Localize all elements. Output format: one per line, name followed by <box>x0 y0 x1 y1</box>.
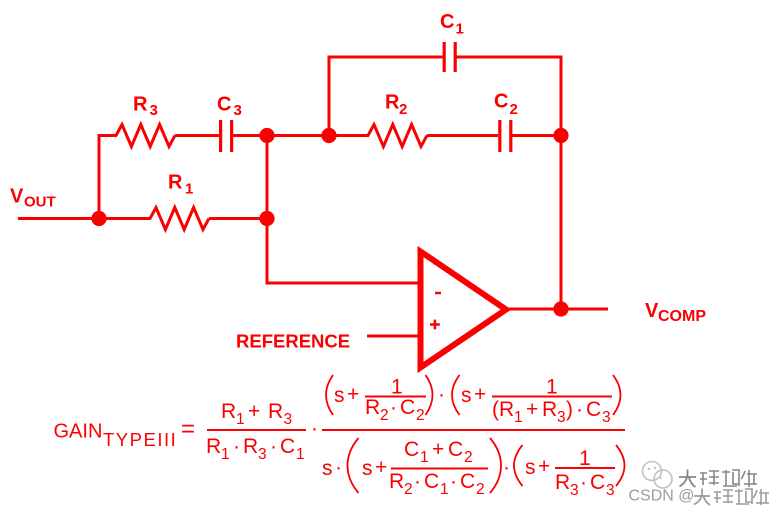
wire: inverting input horizontal to op-amp <box>266 282 422 285</box>
wire: REFERENCE lead to non-inverting input <box>367 335 421 338</box>
svg-text:1: 1 <box>221 446 230 463</box>
svg-text:CSDN @: CSDN @ <box>629 488 695 505</box>
resistor R2 <box>368 125 427 147</box>
label C3 <box>217 94 242 120</box>
svg-text:1: 1 <box>440 481 449 498</box>
wire: C1 top rail left <box>328 56 444 59</box>
svg-text:3: 3 <box>284 411 293 428</box>
label VOUT <box>10 186 56 211</box>
svg-text:(R: (R <box>492 398 514 421</box>
svg-text:2: 2 <box>416 407 425 424</box>
svg-text:R: R <box>365 396 380 419</box>
svg-text:3: 3 <box>602 409 611 426</box>
svg-text:=: = <box>181 416 195 443</box>
resistor R3 <box>116 125 175 147</box>
value fraction (R1+R3)/(R1 R3 C1) <box>206 400 318 463</box>
svg-text:1: 1 <box>296 446 305 463</box>
label R2 <box>385 92 407 119</box>
svg-text:3: 3 <box>234 102 242 119</box>
svg-text:TYPEIII: TYPEIII <box>103 429 177 450</box>
svg-text:·: · <box>311 417 318 440</box>
node A junction VOUT/R1/R3 <box>91 211 106 226</box>
wire: R2 to C2 <box>427 134 498 137</box>
node C junction C3/R2 row/inverting branch <box>259 128 274 143</box>
label REFERENCE <box>236 331 350 352</box>
svg-text:s: s <box>334 384 345 407</box>
svg-text:+: + <box>526 398 538 421</box>
op-amp non-inverting pin mark + <box>430 320 440 330</box>
svg-text:+: + <box>248 400 260 423</box>
svg-text:GAIN: GAIN <box>54 421 103 443</box>
wire: C3 to node C <box>233 134 267 137</box>
op-amp U1 triangle <box>421 252 507 368</box>
svg-text:COMP: COMP <box>658 308 706 325</box>
svg-text:): ) <box>566 398 573 421</box>
svg-text:R: R <box>389 470 404 493</box>
svg-text:+: + <box>538 455 550 478</box>
svg-text:C: C <box>440 11 454 33</box>
svg-text:·: · <box>414 470 421 493</box>
svg-text:1: 1 <box>236 411 245 428</box>
svg-text:·: · <box>233 435 240 458</box>
svg-text:s: s <box>362 457 373 480</box>
capacitor C1 <box>444 42 455 72</box>
capacitor C3 <box>221 120 232 152</box>
node F output junction <box>553 301 568 316</box>
svg-text:2: 2 <box>399 101 407 118</box>
svg-text:C: C <box>400 396 415 419</box>
svg-text:3: 3 <box>150 102 158 119</box>
svg-text:C: C <box>460 470 475 493</box>
svg-text:·: · <box>335 456 342 479</box>
label VCOMP <box>645 300 706 325</box>
svg-text:2: 2 <box>464 449 473 466</box>
svg-text:R: R <box>221 400 236 423</box>
svg-text:C: C <box>448 438 463 461</box>
wire: C1 top rail right <box>457 56 563 59</box>
svg-text:R: R <box>243 435 258 458</box>
resistor R1 <box>150 208 209 230</box>
svg-text:R: R <box>555 471 570 494</box>
node D junction R2/C1 branch <box>321 128 336 143</box>
wire: node D to R2 <box>329 134 369 137</box>
svg-text:R: R <box>542 398 557 421</box>
wire: R3 to C3 <box>175 134 219 137</box>
svg-text:·: · <box>270 435 277 458</box>
svg-text:R: R <box>385 92 400 114</box>
svg-text:C: C <box>404 438 419 461</box>
svg-text:2: 2 <box>476 481 485 498</box>
label R1 <box>168 172 193 198</box>
svg-text:3: 3 <box>570 482 579 499</box>
watermark text line 2 <box>629 488 770 506</box>
watermark text line 1 <box>679 470 757 488</box>
svg-text:C: C <box>586 398 601 421</box>
wire: node C to node D <box>267 134 329 137</box>
svg-text:R: R <box>206 435 221 458</box>
svg-text:·: · <box>438 383 445 406</box>
svg-text:·: · <box>580 471 587 494</box>
svg-text:REFERENCE: REFERENCE <box>236 331 350 352</box>
svg-text:R: R <box>268 400 283 423</box>
svg-text:s: s <box>322 457 333 480</box>
value denominator term s <box>322 456 342 480</box>
svg-text:3: 3 <box>557 409 566 426</box>
svg-text:s: s <box>525 456 536 479</box>
svg-text:C: C <box>280 435 295 458</box>
svg-text:OUT: OUT <box>24 194 56 211</box>
svg-text:1: 1 <box>546 376 558 399</box>
svg-text:1: 1 <box>579 447 591 470</box>
svg-text:C: C <box>494 91 508 113</box>
svg-text:2: 2 <box>404 481 413 498</box>
wire: R3 row left segment <box>98 134 118 137</box>
svg-text:·: · <box>576 398 583 421</box>
svg-text:+: + <box>347 383 359 406</box>
svg-text:R: R <box>168 172 183 194</box>
svg-text:2: 2 <box>510 101 518 118</box>
wire: op-amp output to node F <box>505 308 608 311</box>
svg-text:·: · <box>450 470 457 493</box>
svg-text:1: 1 <box>456 21 464 38</box>
value numerator term (s + 1/(R2 C2)) <box>326 375 445 424</box>
svg-text:2: 2 <box>380 407 389 424</box>
svg-text:1: 1 <box>514 409 523 426</box>
op-amp inverting pin mark - <box>435 292 441 295</box>
svg-text:1: 1 <box>420 449 429 466</box>
svg-text:·: · <box>503 456 510 479</box>
svg-text:V: V <box>645 300 659 322</box>
svg-text:+: + <box>474 383 486 406</box>
label C1 <box>440 11 464 38</box>
wire: node A up to R3 row <box>98 134 101 220</box>
value denominator term (s + 1/(R3 C3)) <box>514 445 625 499</box>
wire: C2 to node E <box>512 134 561 137</box>
value denominator term (s + (C1+C2)/(R2 C1 C2)) <box>348 438 511 498</box>
svg-text:+: + <box>375 456 387 479</box>
label GAIN TYPEIII equation left side <box>54 416 196 451</box>
wire: R1 to node B <box>209 217 267 220</box>
value numerator term (s + 1/((R1+R3) C3)) <box>452 375 621 426</box>
svg-text:C: C <box>590 471 605 494</box>
node E junction C2/C1 rail/output branch <box>553 128 568 143</box>
label R3 <box>133 94 158 120</box>
wire: R1 row node A to resistor <box>99 217 151 220</box>
wire: node D up to C1 top rail <box>328 56 331 138</box>
svg-text:C: C <box>424 470 439 493</box>
capacitor C2 <box>500 120 511 152</box>
node B junction R1/inverting branch <box>259 211 274 226</box>
svg-text:C: C <box>217 94 231 116</box>
svg-text:1: 1 <box>185 181 193 198</box>
label C2 <box>494 91 518 119</box>
svg-text:·: · <box>390 396 397 419</box>
svg-text:V: V <box>10 186 24 208</box>
wire: node C down through node B to inverting corner <box>266 136 269 284</box>
wire: node E down to node F <box>560 136 563 310</box>
svg-text:3: 3 <box>606 482 615 499</box>
watermark logo <box>643 462 673 489</box>
svg-text:3: 3 <box>258 446 267 463</box>
svg-text:R: R <box>133 94 148 116</box>
svg-text:s: s <box>461 384 472 407</box>
value main fraction bar <box>322 429 625 431</box>
wire: VOUT input lead <box>18 217 99 220</box>
wire: C1 rail down to node E <box>560 56 563 137</box>
svg-text:+: + <box>432 438 444 461</box>
